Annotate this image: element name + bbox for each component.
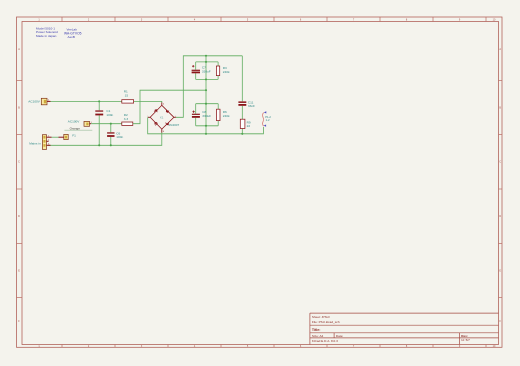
svg-text:Size: A4: Size: A4 xyxy=(312,334,324,338)
wire R6 leads xyxy=(217,104,219,110)
node C7 rail junctions xyxy=(205,61,207,63)
wire neutral bus to bridge bottom xyxy=(48,132,162,145)
svg-text:330uF: 330uF xyxy=(202,69,211,73)
capacitor C6 xyxy=(107,132,123,140)
svg-text:X1: X1 xyxy=(160,115,164,119)
svg-text:AC100V: AC100V xyxy=(68,120,80,124)
connector P1 AC100V xyxy=(28,98,50,105)
wire mains pin1 to F1 xyxy=(52,136,59,138)
frame zone ticks right xyxy=(499,80,503,82)
diode top-left xyxy=(154,109,157,112)
resistor R3 xyxy=(216,66,230,76)
resistor R6 xyxy=(217,109,230,120)
node C8 rail junctions xyxy=(205,103,207,105)
wire C8 block bottom rail xyxy=(196,125,219,127)
wire R3 leads xyxy=(217,62,219,66)
node C6 top junction xyxy=(110,123,112,125)
resistor R1 xyxy=(122,89,134,103)
diode bottom-left xyxy=(154,122,157,125)
node C1 top junction xyxy=(98,100,100,102)
node stack midpoint junction xyxy=(205,89,207,91)
resistor R9 xyxy=(240,119,251,128)
svg-text:AC100V: AC100V xyxy=(28,100,40,104)
svg-text:Date:: Date: xyxy=(336,334,344,338)
title block xyxy=(310,313,499,344)
svg-text:15: 15 xyxy=(125,93,129,97)
svg-text:C: C xyxy=(18,161,20,164)
svg-text:1-2: 1-2 xyxy=(266,118,270,122)
svg-text:Title:: Title: xyxy=(312,328,321,332)
svg-text:1N4007: 1N4007 xyxy=(168,123,179,127)
frame zone ticks left xyxy=(17,80,23,82)
wire C7 leads xyxy=(195,62,197,70)
bridge pin left xyxy=(148,116,150,118)
svg-text:AexB: AexB xyxy=(68,35,75,39)
svg-text:240k: 240k xyxy=(223,114,230,118)
wire center stack vertical xyxy=(205,56,207,134)
svg-text:100n: 100n xyxy=(106,113,113,117)
bridge pin right xyxy=(174,116,176,118)
wire C6 bottom lead xyxy=(110,137,112,145)
resistor R2 xyxy=(122,113,133,125)
capacitor C8 xyxy=(192,110,211,118)
svg-text:Made in Japan: Made in Japan xyxy=(36,34,57,38)
node top bus junction xyxy=(205,55,207,57)
bridge pin bottom xyxy=(161,129,163,133)
diode bottom-right xyxy=(166,122,169,125)
diode bridge X1 xyxy=(147,103,179,134)
svg-text:330uF: 330uF xyxy=(202,114,211,118)
capacitor C11 xyxy=(238,100,255,108)
svg-text:240k: 240k xyxy=(223,70,230,74)
svg-text:File: PSU.kicad_sch: File: PSU.kicad_sch xyxy=(312,320,340,324)
wire R1 to bridge top xyxy=(134,101,162,102)
diode top-right xyxy=(166,109,169,112)
connector P2 AC100V Orange xyxy=(64,120,92,131)
wire Orange connector to R2 xyxy=(91,123,122,125)
wire bridge right to top bus xyxy=(176,56,242,118)
node C1 bottom junction xyxy=(98,144,100,146)
wire R2 to cap stack midpoint xyxy=(133,90,206,124)
wire C6 top lead xyxy=(110,124,112,133)
wire C7 block top rail xyxy=(196,61,218,63)
svg-text:KiCad E.D.A. 8.0.3: KiCad E.D.A. 8.0.3 xyxy=(312,339,338,343)
svg-text:D: D xyxy=(499,215,501,218)
documentation text block xyxy=(36,27,82,39)
node stack bottom bus junction xyxy=(205,133,207,135)
frame zone ticks bottom xyxy=(61,345,63,348)
connector J1 Mains in xyxy=(29,135,51,150)
connector P1-2 output xyxy=(262,111,271,127)
svg-text:33nF: 33nF xyxy=(248,104,255,108)
wire C8 leads xyxy=(195,104,197,114)
svg-text:22: 22 xyxy=(247,124,251,128)
svg-text:3.3: 3.3 xyxy=(124,117,129,121)
wire C8 block top rail xyxy=(196,103,219,105)
capacitor C1 xyxy=(95,109,113,117)
node C6 bottom junction xyxy=(110,144,112,146)
fuse F1 connector xyxy=(59,133,77,139)
svg-text:Orange: Orange xyxy=(70,126,81,130)
wire C7 block bottom rail xyxy=(196,78,218,80)
node R9 bus junction xyxy=(241,133,243,135)
svg-text:F1: F1 xyxy=(72,133,76,137)
bridge pin top xyxy=(161,103,163,106)
wire live AC in xyxy=(51,100,122,102)
wire C1 bottom lead xyxy=(98,115,100,145)
wire C11 R9 branch xyxy=(241,56,243,102)
frame zone ticks top xyxy=(61,17,63,22)
wire C1 top lead xyxy=(98,101,100,110)
svg-text:C: C xyxy=(499,161,501,164)
svg-text:100n: 100n xyxy=(116,135,123,139)
svg-text:Id: 5/7: Id: 5/7 xyxy=(461,338,470,342)
capacitor C7 xyxy=(192,65,211,73)
wire bridge left to DC minus bus xyxy=(148,117,264,134)
svg-text:Sheet: /PSU/: Sheet: /PSU/ xyxy=(312,315,330,319)
svg-text:Mains in: Mains in xyxy=(29,142,41,146)
svg-text:D: D xyxy=(18,215,20,218)
